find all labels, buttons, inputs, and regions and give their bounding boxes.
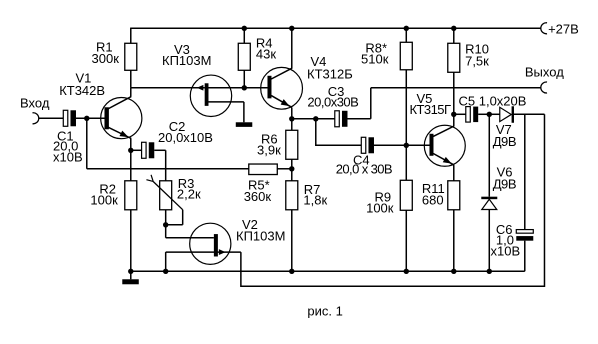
svg-text:100к: 100к <box>366 201 394 216</box>
svg-text:20,0 х 30В: 20,0 х 30В <box>336 162 392 177</box>
svg-text:360к: 360к <box>244 189 272 204</box>
svg-text:+27В: +27В <box>548 22 579 37</box>
svg-text:3,9к: 3,9к <box>257 143 281 158</box>
svg-text:2,2к: 2,2к <box>177 187 201 202</box>
svg-text:Вход: Вход <box>20 96 50 111</box>
svg-text:Выход: Выход <box>525 65 564 80</box>
svg-text:1,8к: 1,8к <box>303 192 327 207</box>
svg-text:рис. 1: рис. 1 <box>307 304 342 319</box>
svg-text:Д9В: Д9В <box>493 176 516 191</box>
svg-text:7,5к: 7,5к <box>465 53 489 68</box>
svg-text:C5 1,0х20В: C5 1,0х20В <box>459 93 527 108</box>
svg-text:КТ342В: КТ342В <box>59 83 105 98</box>
svg-text:КТ312Б: КТ312Б <box>307 66 353 81</box>
svg-text:КП103М: КП103М <box>236 228 285 243</box>
svg-text:100к: 100к <box>90 192 118 207</box>
svg-text:680: 680 <box>422 192 444 207</box>
svg-text:КП103М: КП103М <box>162 53 211 68</box>
svg-text:300к: 300к <box>92 51 120 66</box>
svg-text:КТ315Г: КТ315Г <box>410 102 451 117</box>
svg-text:х10В: х10В <box>491 244 521 259</box>
svg-text:43к: 43к <box>256 47 276 62</box>
svg-text:20,0х30В: 20,0х30В <box>307 95 358 110</box>
svg-text:х10В: х10В <box>53 150 83 165</box>
svg-text:510к: 510к <box>361 51 389 66</box>
svg-text:20,0х10В: 20,0х10В <box>158 130 213 145</box>
svg-text:Д9В: Д9В <box>493 134 516 149</box>
